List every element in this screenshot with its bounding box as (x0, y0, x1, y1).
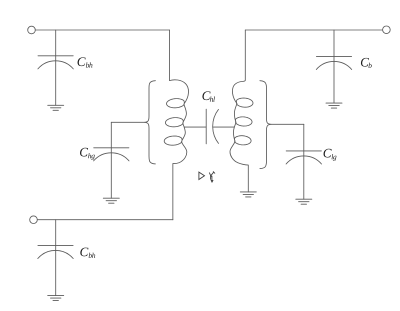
ground (right winding) (240, 191, 256, 193)
label Cb (361, 58, 369, 67)
wire Chg tap (111, 121, 144, 123)
capacitor Chg (110, 122, 112, 198)
brace left winding (145, 81, 156, 164)
marker triangle (199, 172, 205, 179)
wire top-right: right winding top to P2 (245, 29, 382, 31)
capacitor Cbh (top) (55, 30, 57, 105)
terminal P2 (top-right port) (383, 26, 391, 34)
brace right winding (260, 81, 271, 169)
capacitor Chl (205, 109, 207, 144)
wire bottom-left: P3 to left winding bottom (37, 219, 173, 221)
label Clg (324, 149, 332, 158)
capacitor Cb (333, 30, 335, 103)
ground (Cb) (326, 102, 342, 104)
label Cbh (bottom) (80, 248, 88, 257)
label Chg (80, 148, 88, 157)
marker arrow glyph (209, 173, 210, 176)
wire Chl right (213, 126, 234, 128)
inductor L2 (low-voltage winding) (230, 30, 253, 192)
wire top-left: P1 to left winding top (35, 29, 169, 31)
terminal P1 (top-left port) (28, 26, 36, 34)
label Cbh (top) (78, 57, 86, 66)
ground (Cbh top) (48, 104, 64, 106)
wire Chl left (184, 126, 206, 128)
ground (Clg) (296, 198, 312, 200)
inductor L1 (high-voltage winding) (164, 30, 188, 220)
terminal P3 (bottom-left port) (30, 216, 38, 224)
capacitor Cbh (bottom) (55, 220, 57, 296)
wire Clg tap (271, 123, 304, 125)
ground (Chg) (103, 197, 119, 199)
label Chl (202, 91, 210, 100)
capacitor Clg (303, 124, 305, 199)
ground (Cbh bottom) (48, 295, 64, 297)
